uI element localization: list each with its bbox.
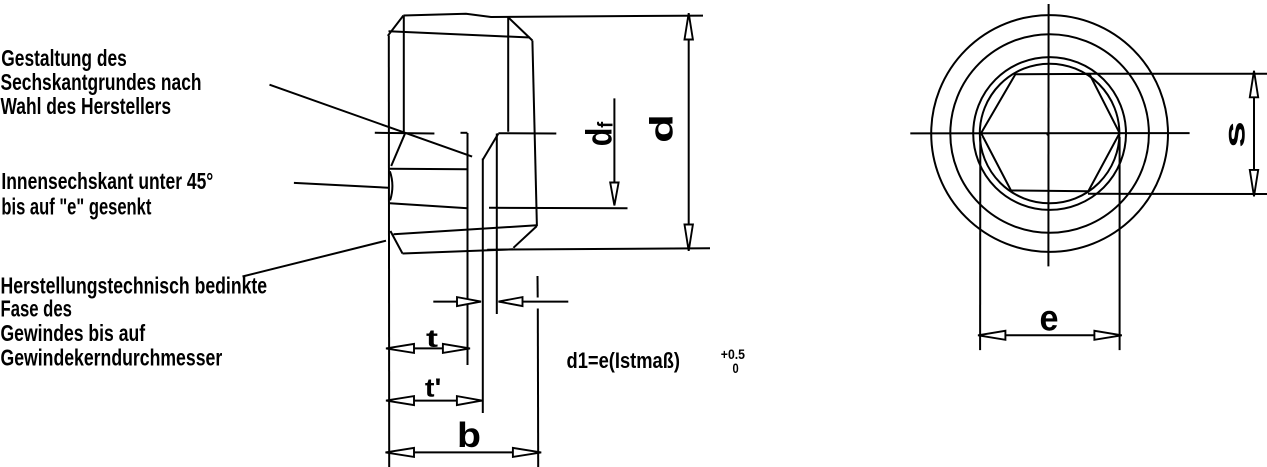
leader line to thread chamfer [243,241,387,277]
dimension s: top extension line [1086,73,1267,75]
svg-text:Wahl des Herstellers: Wahl des Herstellers [1,93,172,119]
note text: Herstellungstechnisch bedinkte Fase [1,272,268,370]
dimension t-prime: left arrow [386,396,414,405]
dimension df: line [613,98,615,204]
svg-text:t: t [426,325,439,353]
svg-text:bis auf "e" gesenkt: bis auf "e" gesenkt [1,194,151,220]
side view: hex socket lower wall [390,203,468,208]
front view: thread root circle [950,34,1149,233]
side view: socket bottom chamfer line [483,134,499,161]
dimension e: line [980,334,1119,336]
front view: center dot [1046,133,1049,136]
svg-text:Fase des: Fase des [1,296,72,322]
side view: drill depth line with t-prime extension [482,159,484,414]
side view: bottom-left thread chamfer [390,231,402,254]
dimension t: right arrow [443,344,470,353]
svg-text:e: e [1040,297,1059,338]
side view: top-left thread chamfer [388,16,404,36]
front view: outer thread crest circle [931,15,1168,252]
svg-text:b: b [457,416,481,455]
side view: top thread root line [389,31,531,37]
note text: Gestaltung des Sechskantgrundes [1,45,202,119]
dimension d: line [688,17,690,248]
dimension s: line [1253,74,1255,193]
side view: top crest line and d top reference [403,14,703,17]
dimension t: left arrow [386,344,414,353]
dimension e: label [1040,297,1059,338]
dimension df: label [579,121,620,146]
side view: centerline left segment [375,132,435,135]
dimension t-prime: line [389,400,482,402]
svg-text:Innensechskant unter 45°: Innensechskant unter 45° [1,168,213,194]
dimension b: label [457,416,481,455]
side view: left chamfer circle line [403,16,405,134]
dimension df: bottom reference line [489,207,628,210]
front view: countersink outer circle [973,57,1126,210]
front view: hex socket outline [981,74,1120,191]
dimension s: bottom extension line [1088,193,1267,195]
side view: centerline right segment [498,132,556,134]
dimension d: bottom reference line [487,248,710,250]
note text: Innensechskant unter 45 [1,168,213,220]
side view: bottom crest line [403,249,514,253]
dimension d: top arrow [685,13,693,39]
svg-text:Gestaltung des: Gestaltung des [1,45,127,71]
svg-text:df: df [579,121,620,146]
dimension t: line [389,347,468,349]
dimension t-prime: label [425,373,442,403]
dimension e: right arrow [1094,331,1121,340]
side view: centerline middle segment [461,132,468,134]
dimension e: left arrow [978,331,1005,340]
side view: drill line with extension [496,134,498,315]
leader line to hex socket bottom [270,85,473,157]
front view: horizontal centerline [910,132,1189,134]
dimension s: label [1219,121,1252,148]
side view: right face b extension line [537,276,539,298]
dimension d1: right line and arrow [499,301,569,303]
dimension t: label [426,325,439,353]
svg-text:d1=e(Istmaß): d1=e(Istmaß) [567,348,681,373]
svg-text:0: 0 [733,360,739,376]
svg-text:t': t' [425,373,442,403]
side view: countersink cone line [391,134,405,166]
tolerance text: +0.5 over 0 [721,346,745,376]
side view: bottom-right end chamfer [513,226,537,248]
svg-text:d: d [644,114,680,143]
side view: right end face [532,41,537,227]
side view: top-right end chamfer [508,17,533,41]
dimension e: left extension line [979,137,981,350]
svg-text:Sechskantgrundes nach: Sechskantgrundes nach [1,69,202,95]
dimension t-prime: right arrow [457,396,482,405]
svg-text:Herstellungstechnisch bedinkte: Herstellungstechnisch bedinkte [1,272,268,298]
note text: d1=e(Istmass) [567,348,681,373]
leader line to countersink [294,183,388,188]
dimension e: right extension line [1119,137,1121,350]
dimension b: right arrow [513,448,541,457]
dimension d: bottom arrow [685,225,693,251]
side view: countersink edge arc on left face [390,171,393,200]
dimension s: top arrow [1250,71,1258,98]
svg-text:Gewindes bis auf: Gewindes bis auf [1,320,146,346]
dimension s: bottom arrow [1250,170,1258,197]
side view: left face line with dimension extension [388,36,390,467]
side view: right chamfer circle line [507,17,509,132]
side view: socket bottom line with t extension [467,133,469,365]
front view: hex corner circle [980,64,1120,204]
svg-text:Gewindekerndurchmesser: Gewindekerndurchmesser [1,344,223,370]
dimension d: label [644,114,680,143]
front view: vertical centerline [1047,4,1049,266]
side view: bottom thread root line [394,225,537,234]
dimension d1: left line and arrow [433,301,481,303]
svg-text:s: s [1219,121,1252,148]
dimension b: left arrow [386,448,415,457]
dimension df: arrow [610,183,618,206]
dimension b: line [389,451,538,453]
side view: hex socket upper wall [390,168,468,170]
